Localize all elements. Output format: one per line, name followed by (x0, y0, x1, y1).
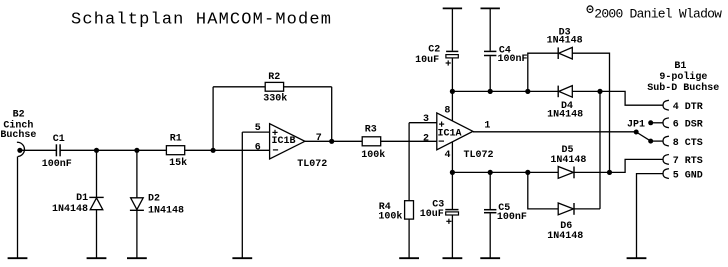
wire GND pin down (637, 174, 664, 258)
capacitor C4 100nF (481, 8, 528, 91)
wire IC1A output pin 1 (473, 131, 636, 133)
wire D3 branch up and right (528, 53, 558, 91)
copyright note (587, 6, 722, 22)
svg-text:R3: R3 (365, 125, 377, 136)
junction D4 D6 node (597, 89, 602, 94)
diode D5 1N4148 (550, 145, 586, 178)
svg-text:1N4148: 1N4148 (547, 110, 583, 121)
svg-text:Schaltplan HAMCOM-Modem: Schaltplan HAMCOM-Modem (71, 11, 332, 30)
lower rail wire C5 to D6 branch (490, 171, 528, 173)
wire feedback right vertical (331, 87, 333, 142)
pin 5 GND (663, 169, 703, 182)
rail wire to D4 (528, 90, 558, 92)
svg-text:100nF: 100nF (498, 54, 528, 65)
svg-text:9-polige: 9-polige (659, 71, 707, 83)
connector B2 Cinch Buchse (0, 110, 36, 157)
rail wire C4 to D3 branch (490, 90, 528, 92)
svg-text:R2: R2 (268, 72, 280, 83)
wire R4 to ground (408, 219, 410, 258)
wire B2 pin to C1 (20, 149, 56, 151)
jumper JP1 (627, 119, 663, 143)
junction node D2 (134, 148, 139, 153)
svg-text:TL072: TL072 (464, 150, 494, 161)
diode D2 1N4148 (130, 194, 184, 217)
junction IC1B output (329, 139, 334, 144)
svg-text:8: 8 (444, 105, 450, 116)
resistor R2 330k (263, 72, 287, 104)
svg-text:Buchse: Buchse (0, 129, 36, 141)
wire D4 to DTR node (572, 90, 600, 92)
svg-text:5 GND: 5 GND (673, 170, 703, 181)
svg-text:6: 6 (255, 143, 261, 154)
diode D4 1N4148 (547, 86, 583, 121)
svg-text:D2: D2 (148, 194, 160, 205)
wire C1 to node D1 (60, 149, 96, 151)
junction D3 branch (525, 89, 530, 94)
wire IC1B output to R3 (305, 140, 362, 142)
ground D1 (87, 257, 107, 259)
svg-text:B1: B1 (674, 61, 686, 72)
wire feedback left vertical (212, 87, 214, 151)
diode D6 1N4148 (547, 203, 583, 242)
wire IC1A pin 3 down to R4 (408, 123, 410, 201)
wire B2 shield down (17, 157, 19, 258)
wire node D2 to R1 (137, 149, 167, 151)
svg-text:Sub-D Buchse: Sub-D Buchse (647, 82, 719, 94)
pin 4 DTR (663, 100, 703, 113)
svg-text:JP1: JP1 (627, 119, 645, 130)
svg-text:5: 5 (255, 123, 261, 134)
svg-text:7: 7 (316, 133, 322, 144)
svg-text:100k: 100k (378, 210, 402, 222)
svg-text:4: 4 (445, 150, 451, 161)
diode D3 1N4148 (547, 28, 583, 60)
wire feedback top left (213, 86, 265, 88)
wire D6 to vertical (574, 208, 600, 210)
wire R3 to IC1A inverting input pin 2 (381, 140, 437, 142)
svg-text:10uF: 10uF (420, 209, 444, 220)
wire D6 right vertical (599, 91, 601, 208)
junction C4 rail (488, 89, 493, 94)
junction R1 R2 IC1B input (211, 148, 216, 153)
svg-text:10uF: 10uF (415, 55, 439, 66)
wire D2 to ground (136, 210, 138, 258)
svg-text:C2: C2 (428, 44, 440, 55)
svg-text:1N4148: 1N4148 (547, 36, 583, 47)
wire R1 to feedback node (185, 149, 213, 151)
svg-text:1N4148: 1N4148 (547, 231, 583, 242)
wire node to D2 (136, 150, 138, 198)
connector B1 labels (647, 61, 719, 94)
op-amp IC1A (423, 105, 494, 161)
svg-text:1: 1 (484, 120, 490, 131)
junction RTS D3 node (607, 170, 612, 175)
wire feedback top right (284, 86, 332, 88)
lower rail wire C3 to C5 (452, 171, 490, 173)
svg-text:TL072: TL072 (297, 159, 327, 170)
resistor R4 100k (378, 201, 413, 223)
wire IC1A noninverting input pin 3 (409, 122, 437, 124)
wire node to IC1B inverting input pin 6 (213, 149, 270, 151)
svg-text:R1: R1 (170, 134, 182, 145)
capacitor C1 100nF (42, 134, 72, 170)
svg-text:IC1A: IC1A (438, 128, 462, 139)
svg-text:2: 2 (423, 133, 429, 144)
junction node D1 (94, 148, 99, 153)
svg-text:C1: C1 (53, 134, 65, 145)
resistor R3 100k (361, 125, 385, 161)
wire node to D1 (96, 150, 98, 197)
op-amp IC1B (255, 123, 327, 170)
wire node D1 to node D2 (97, 149, 137, 151)
wire D3 right and down (572, 53, 609, 172)
ground C5 (480, 257, 500, 259)
svg-text:4 DTR: 4 DTR (673, 102, 703, 113)
wire D1 to ground (96, 210, 98, 258)
wire D6 branch down and right (528, 172, 558, 209)
svg-text:100nF: 100nF (497, 212, 527, 223)
wire DTR step (600, 91, 663, 105)
ground IC1B (232, 257, 252, 259)
pin 6 DSR (663, 118, 703, 131)
svg-text:100nF: 100nF (42, 159, 72, 170)
ground B1 (627, 257, 647, 259)
svg-text:7 RTS: 7 RTS (673, 156, 703, 167)
wire IC1A pin 8 to supply rail (451, 91, 453, 121)
svg-text:1N4148: 1N4148 (52, 204, 88, 215)
pin 8 CTS (663, 136, 703, 149)
svg-text:6 DSR: 6 DSR (673, 120, 703, 131)
junction C5 rail (488, 170, 493, 175)
svg-text:2000 Daniel Wladow: 2000 Daniel Wladow (594, 6, 722, 21)
ground C3 (443, 257, 463, 259)
junction C2 rail (450, 89, 455, 94)
capacitor C3 10uF (420, 172, 459, 258)
diode D1 1N4148 (52, 193, 104, 215)
capacitor C2 10uF (415, 8, 462, 91)
capacitor C5 100nF (484, 172, 527, 258)
ground B2 (8, 257, 28, 259)
svg-text:15k: 15k (169, 157, 187, 169)
wire IC1B noninverting input pin 5 (242, 131, 269, 133)
ground D2 (127, 257, 147, 259)
svg-text:330k: 330k (263, 93, 287, 105)
pin 7 RTS (663, 155, 703, 168)
svg-text:IC1B: IC1B (272, 136, 296, 147)
junction lower rail pin4 C3 (450, 170, 455, 175)
resistor R1 15k (166, 134, 187, 170)
svg-text:100k: 100k (361, 149, 385, 161)
ground R4 (399, 257, 419, 259)
svg-text:3: 3 (423, 114, 429, 125)
svg-text:1N4148: 1N4148 (148, 205, 184, 216)
svg-text:8 CTS: 8 CTS (673, 138, 703, 149)
wire IC1A pin 4 to lower rail (451, 142, 453, 173)
wire RTS step (610, 159, 664, 172)
svg-text:1N4148: 1N4148 (550, 155, 586, 166)
wire IC1B pin 5 to ground (241, 132, 243, 258)
supply rail wire C2 to C4 (452, 90, 490, 92)
lower rail wire to D5 (528, 171, 558, 173)
wire D5 to RTS node (574, 171, 610, 173)
svg-text:B2: B2 (13, 110, 25, 121)
junction D6 branch (525, 170, 530, 175)
svg-text:D1: D1 (76, 193, 88, 204)
